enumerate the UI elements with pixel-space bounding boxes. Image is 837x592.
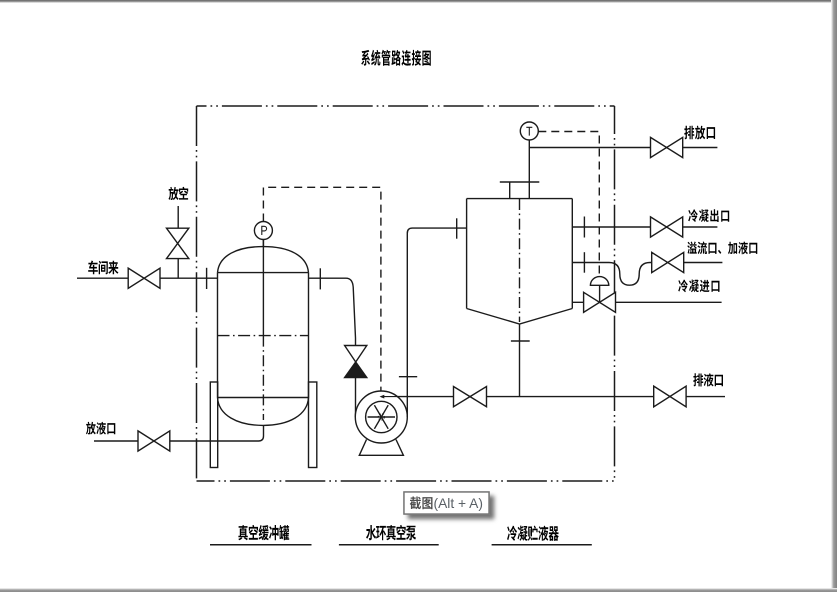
gauge PG1 letter P	[262, 226, 267, 235]
tank T1 top dome	[218, 247, 309, 273]
flange tick on riser top run	[456, 218, 458, 238]
diaphragm valve V9 (冷凝进口): bowtie	[584, 292, 616, 312]
temperature gauge TG1 stem	[528, 140, 530, 199]
label 放空	[169, 187, 189, 200]
tank T1 left leg	[210, 382, 217, 468]
temperature gauge TG1	[520, 122, 538, 140]
label 冷凝贮液器	[507, 526, 559, 541]
valve V8 (溢流口、加液口)	[652, 252, 684, 272]
svg-text:(Alt + A): (Alt + A)	[434, 496, 483, 511]
dashed instrument line TG1 to diaphragm valve	[538, 132, 599, 277]
tank T1 mid weld line (dash-dot)	[218, 335, 309, 337]
condenser tank T2: shell	[467, 199, 573, 324]
title 系统管路连接图	[361, 50, 431, 66]
condenser bottom outlet stub	[519, 324, 521, 397]
wire: 排放口 line	[529, 147, 717, 149]
label 水环真空泵	[366, 525, 416, 540]
label 放液口	[86, 422, 115, 435]
pump P1 inner circle	[366, 401, 397, 432]
vacuum buffer tank T1: shell	[218, 273, 309, 398]
wire: workshop inlet line (车间来)	[77, 277, 128, 279]
check valve CV1 (to pump, half filled)	[345, 346, 367, 363]
valve V6 (排放口)	[651, 137, 683, 157]
valve V9 dome actuator	[590, 277, 608, 286]
flange tick	[583, 252, 585, 273]
label 溢流口、加液口	[687, 242, 757, 255]
tank T2 top nozzle	[500, 182, 540, 199]
wire: 冷凝出口 line	[572, 226, 717, 228]
valve V1 (workshop inlet gate valve)	[128, 268, 160, 288]
flange tick right of tank	[319, 268, 321, 289]
label 冷凝进口	[678, 280, 719, 293]
label underline: 水环真空泵	[339, 544, 439, 546]
label underline: 真空缓冲罐	[210, 544, 312, 546]
wire: 冷凝进口 line	[573, 301, 722, 303]
pump discharge riser	[407, 228, 467, 417]
flange tick on riser (horizontal)	[399, 376, 417, 378]
tank T2 centerline (dash-dot)	[519, 199, 521, 322]
pump P1 impeller spokes	[368, 405, 395, 429]
valve V9 stem	[599, 285, 601, 302]
pressure gauge PG1	[254, 222, 272, 240]
valve V3 (drain valve 放液口)	[138, 431, 170, 451]
label 排放口	[684, 126, 715, 140]
gauge TG1 letter T	[526, 127, 532, 135]
label underline: 冷凝贮液器	[492, 544, 592, 546]
wire: tank right-side line to check valve	[309, 278, 356, 345]
label 冷凝出口	[688, 209, 729, 222]
valve V7 (冷凝出口)	[651, 217, 683, 237]
tank T1 right leg	[309, 382, 317, 468]
pump P1 hub	[378, 414, 384, 420]
pump base	[359, 440, 403, 456]
water-ring vacuum pump P1: casing	[355, 391, 407, 443]
flange tick on stub	[511, 340, 530, 342]
tank T1 bottom dish	[218, 398, 309, 426]
valve V2 (vent valve, vertical)	[167, 228, 189, 258]
label 排液口	[693, 373, 723, 386]
valve V4 (header valve)	[454, 387, 487, 407]
label 真空缓冲罐	[238, 525, 289, 540]
window frame edges	[0, 0, 837, 3]
main bottom header with arrow into pump	[397, 396, 725, 398]
wire: CV1 down to pump tangent	[355, 378, 357, 417]
drain line from tank T1 (放液口)	[170, 425, 264, 441]
flange tick on inlet line	[206, 268, 208, 289]
label 车间来	[88, 261, 118, 275]
flange tick	[583, 217, 585, 238]
tank T1 centerline	[262, 240, 264, 336]
vent stem (放空)	[177, 206, 179, 278]
valve V5 (排液口 valve)	[654, 386, 686, 407]
dashed instrument line from PG1 to pump	[263, 187, 381, 391]
wire: 溢流口 line with loop seal	[572, 263, 651, 286]
tooltip 截图(Alt + A)	[404, 492, 489, 514]
phantom boundary box (dash-dot-dot)	[197, 106, 615, 481]
